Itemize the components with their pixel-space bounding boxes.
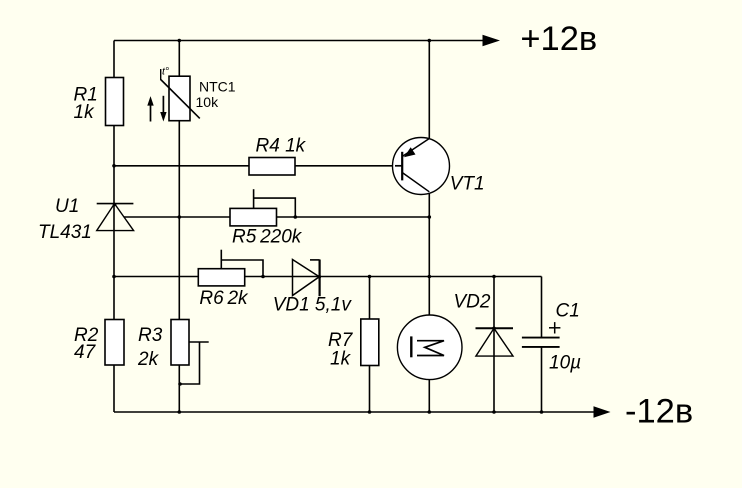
wire left vertical bus bbox=[113, 41, 115, 413]
svg-text:U1: U1 bbox=[55, 196, 79, 217]
electroacoustic transducer BF (circle with sideways M) bbox=[397, 315, 462, 380]
wire top rail +12 bbox=[114, 40, 486, 42]
node: rail/VT1 emitter junction bbox=[428, 39, 432, 43]
node: R4 row left junction bbox=[112, 164, 116, 168]
node: rail/NTC junction bbox=[178, 39, 182, 43]
resistor R4 bbox=[249, 158, 295, 176]
arrow -12 bbox=[594, 406, 611, 418]
diode VD2 bbox=[476, 327, 514, 357]
node: bottom rail motor junction bbox=[428, 410, 432, 414]
node: R5 row / NTC bus junction bbox=[178, 215, 182, 219]
wire C1 top lead bbox=[541, 277, 543, 338]
svg-text:VD2: VD2 bbox=[454, 292, 491, 313]
svg-text:10k: 10k bbox=[196, 94, 220, 110]
resistor R2 bbox=[105, 320, 124, 366]
arrow down (NTC marker) bbox=[160, 96, 166, 122]
svg-text:t°: t° bbox=[162, 66, 169, 78]
wire VT1 collector down to motor bbox=[428, 192, 430, 316]
zener diode VD1 bbox=[293, 260, 322, 297]
svg-text:-12в: -12в bbox=[625, 393, 693, 431]
wire R5 wiper tap bbox=[253, 189, 255, 208]
shunt regulator U1 TL431 bbox=[97, 203, 134, 231]
wire R6 wiper tap bbox=[220, 250, 222, 269]
trimmer R3 bbox=[171, 320, 189, 366]
capacitor C1 bbox=[522, 322, 561, 347]
svg-text:C1: C1 bbox=[556, 301, 580, 322]
thermistor NTC1 bbox=[161, 66, 200, 121]
node: R6 wiper junction bbox=[261, 275, 265, 279]
resistor R7 bbox=[361, 319, 379, 366]
wire bottom rail -12 bbox=[114, 411, 596, 413]
svg-text:10µ: 10µ bbox=[549, 353, 581, 374]
node: bottom rail R3 junction bbox=[178, 410, 182, 414]
node: R5 wiper junction bbox=[294, 215, 298, 219]
wire VT1 emitter to +12 rail bbox=[428, 41, 430, 139]
svg-text:+12в: +12в bbox=[520, 20, 597, 58]
svg-text:VD1 5,1v: VD1 5,1v bbox=[273, 295, 353, 316]
wire motor to bottom rail bbox=[428, 380, 430, 413]
svg-text:R3: R3 bbox=[138, 325, 163, 346]
node: R3 wiper junction bbox=[178, 382, 182, 386]
svg-text:1k: 1k bbox=[74, 102, 96, 123]
node: bottom rail C1 junction bbox=[540, 410, 544, 414]
wire C1 bottom lead bbox=[541, 347, 543, 412]
node: VD2 top junction bbox=[492, 275, 496, 279]
resistor R1 bbox=[106, 78, 124, 126]
wire NTC vertical bus bbox=[178, 41, 180, 413]
node: bottom rail VD2 junction bbox=[492, 410, 496, 414]
svg-text:R4 1k: R4 1k bbox=[256, 136, 307, 157]
wire R3 wiper tap bbox=[189, 341, 208, 343]
svg-text:47: 47 bbox=[74, 342, 97, 363]
svg-text:1k: 1k bbox=[330, 349, 352, 370]
wire R5 row from U1 to VT1 collector bbox=[124, 216, 429, 218]
arrow up (NTC marker) bbox=[147, 96, 153, 121]
node: collector/motor row junction bbox=[428, 275, 432, 279]
node: R5 row / collector junction bbox=[428, 215, 432, 219]
wire R6/VD1 row bbox=[114, 276, 542, 278]
wire R7 branch bbox=[369, 277, 371, 413]
wire R4 row to VT1 base bbox=[114, 165, 402, 167]
node: bottom rail R7 junction bbox=[368, 410, 372, 414]
transistor VT1 bbox=[393, 138, 450, 195]
arrow +12 bbox=[483, 35, 501, 47]
node: R7 top junction bbox=[368, 275, 372, 279]
svg-text:R5 220k: R5 220k bbox=[232, 227, 303, 248]
node: R6 row left junction bbox=[112, 275, 116, 279]
svg-text:NTC1: NTC1 bbox=[199, 78, 236, 94]
svg-text:R6 2k: R6 2k bbox=[199, 288, 249, 309]
trimmer R6 bbox=[198, 269, 244, 286]
svg-text:TL431: TL431 bbox=[38, 222, 92, 243]
trimmer R5 bbox=[230, 208, 277, 226]
wire VD2 branch bbox=[493, 277, 495, 413]
svg-text:VT1: VT1 bbox=[450, 174, 485, 195]
svg-text:2k: 2k bbox=[137, 349, 160, 370]
